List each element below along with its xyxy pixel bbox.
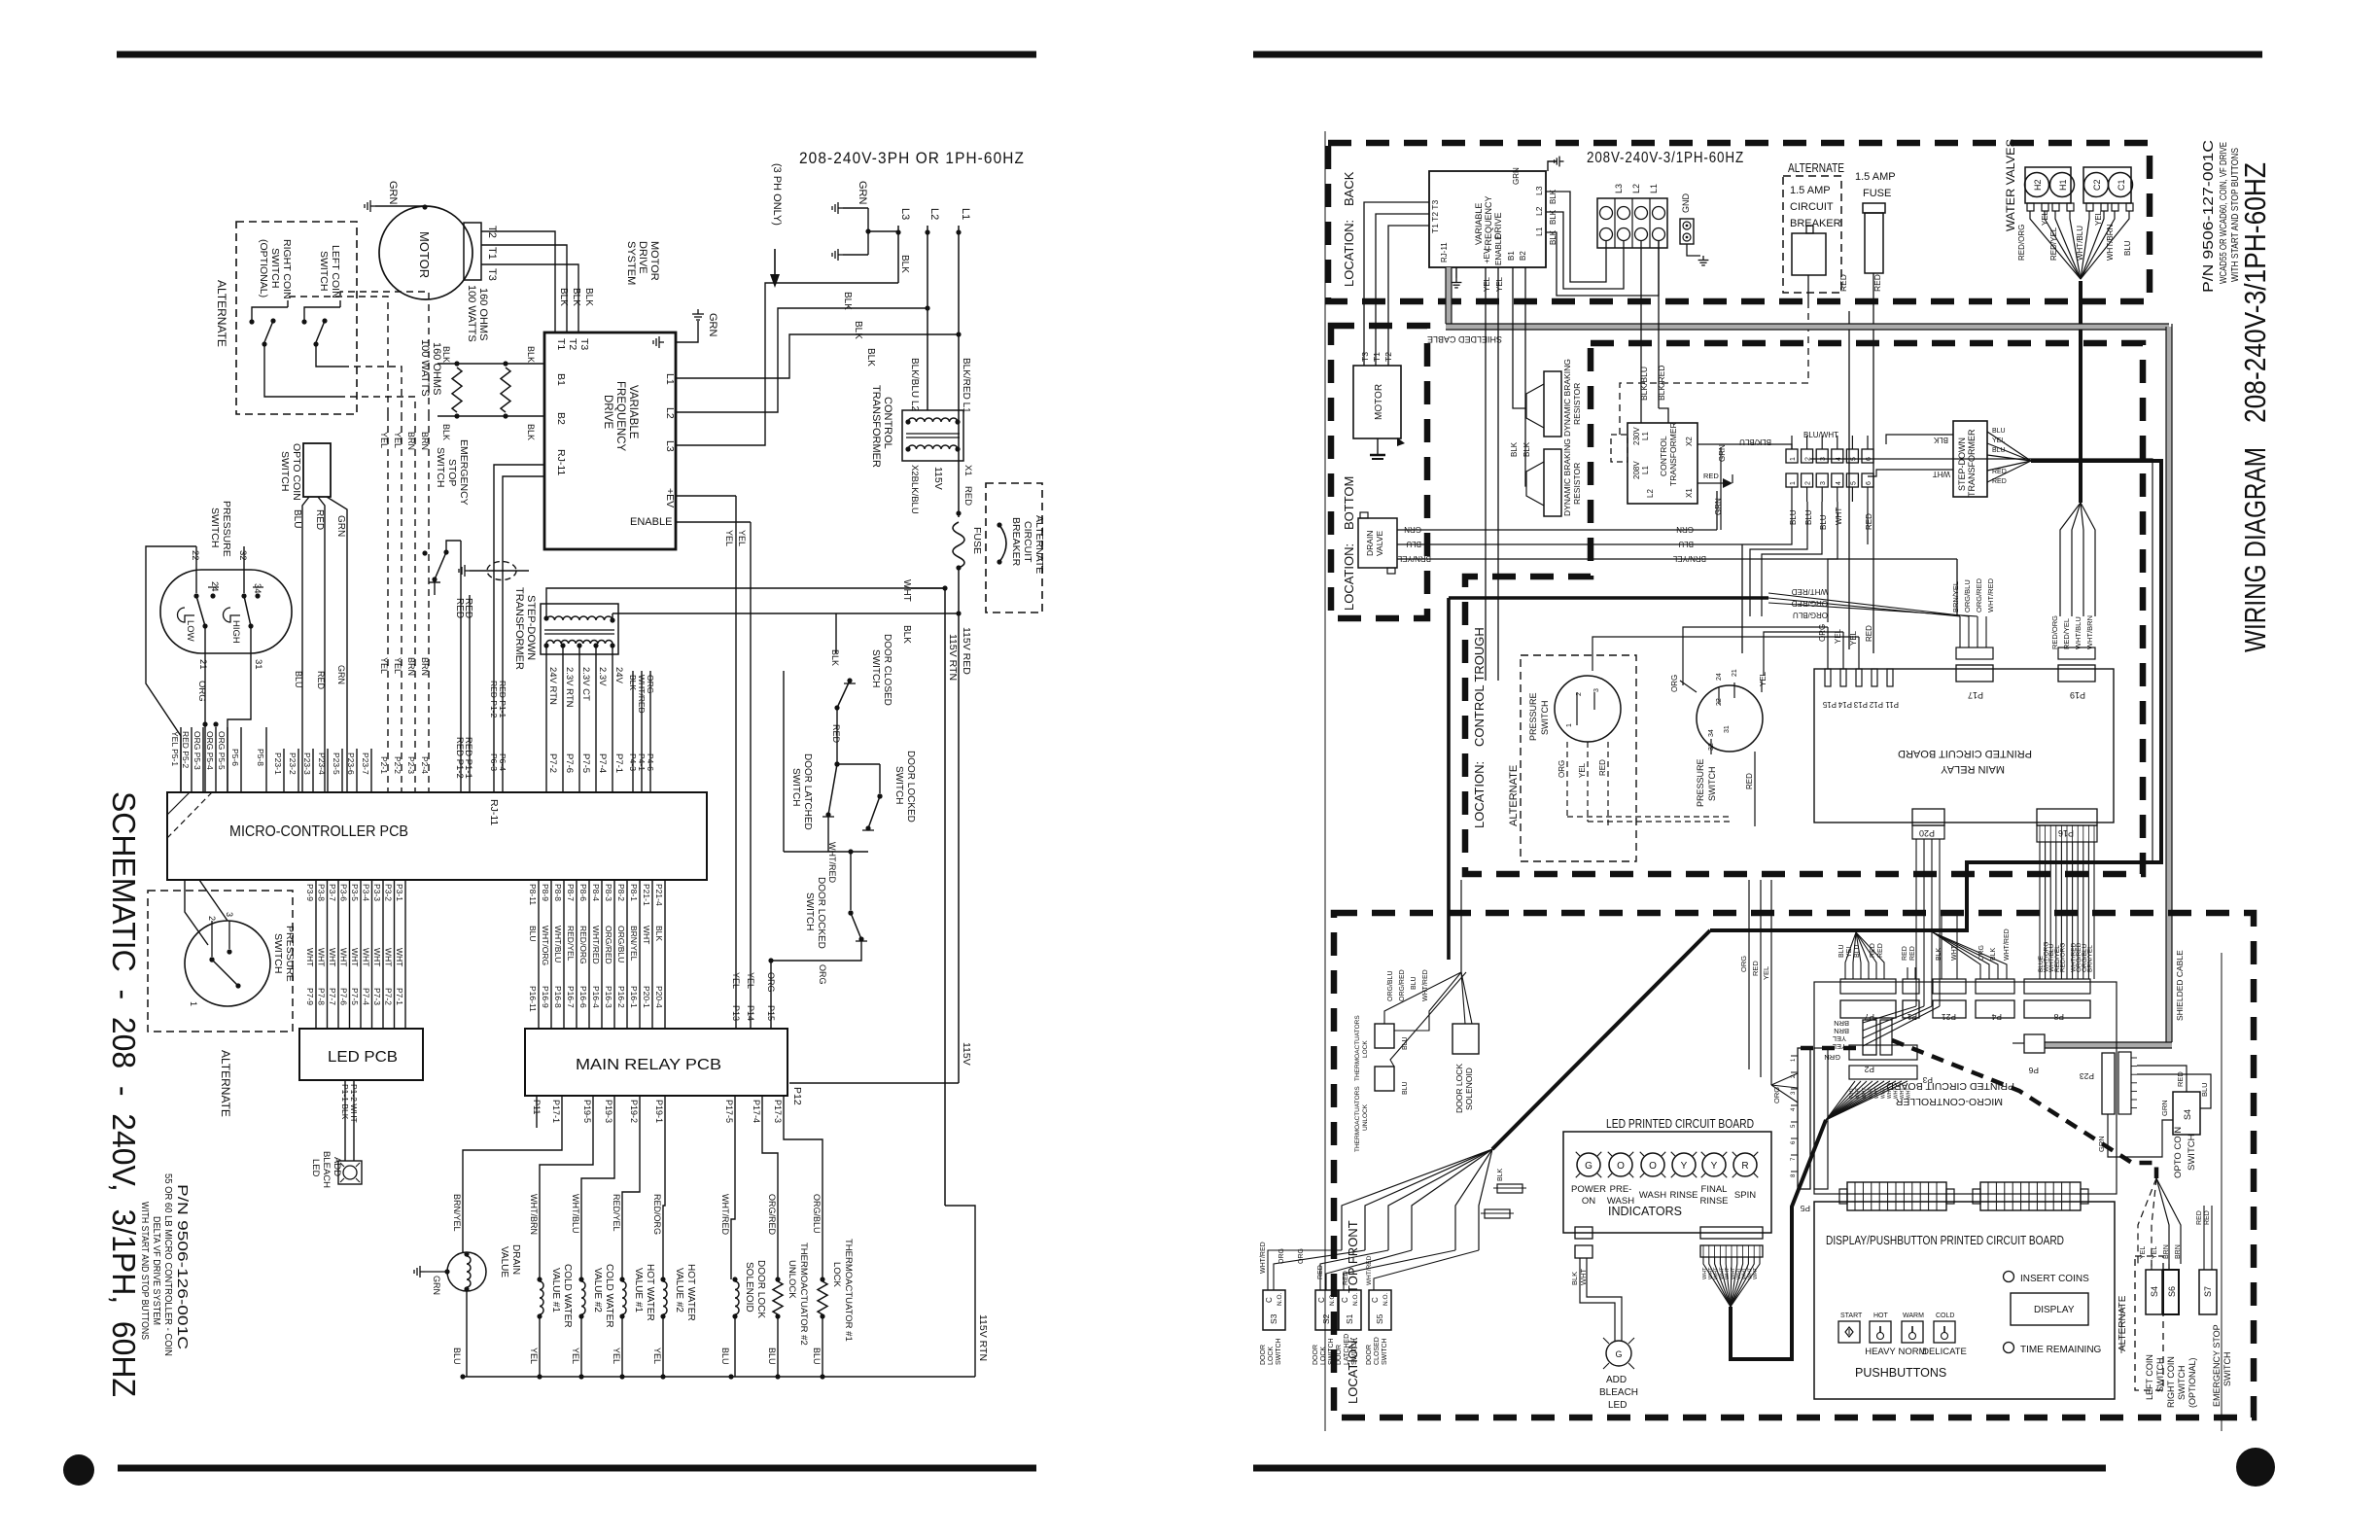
COLD button [1922, 1312, 1967, 1357]
PS4 contacts [1708, 669, 1738, 754]
svg-text:RINSE: RINSE [1699, 1196, 1728, 1207]
label ALTERNATE CIRCUIT BREAKER [1010, 515, 1045, 574]
label RED/YEL [612, 1194, 621, 1232]
svg-text:ENABLE: ENABLE [630, 516, 672, 528]
T4 labels [1632, 422, 1694, 498]
svg-text:RED: RED [1745, 773, 1754, 789]
strip wires down [1742, 502, 1868, 622]
label DISPLAY/PUSHBUTTON PRINTED CIRCUIT BOARD [1826, 1234, 2064, 1247]
svg-text:GRN: GRN [857, 181, 868, 205]
label THERMOACTUATOR #2 UNLOCK [787, 1242, 809, 1346]
svg-text:BLU: BLU [2123, 240, 2132, 256]
VFD pin label B2 [555, 412, 567, 425]
svg-text:P2-1: P2-1 [379, 756, 389, 774]
svg-text:208V: 208V [1632, 461, 1641, 479]
svg-text:P23: P23 [2080, 1071, 2094, 1081]
svg-text:P19: P19 [2070, 690, 2085, 700]
labels RED RED [454, 598, 473, 618]
svg-text:LED: LED [1608, 1400, 1627, 1411]
label OPTO COIN SWITCH [279, 443, 302, 501]
LED harness connector [1700, 1245, 1763, 1257]
VFD ground pin [653, 336, 664, 348]
svg-text:C2: C2 [2092, 179, 2102, 191]
labels BLK WHT (P21) [1936, 914, 1958, 979]
switch right coin S-R [301, 307, 340, 347]
label YEL [571, 1347, 580, 1364]
svg-text:YEL: YEL [1833, 1034, 1846, 1043]
svg-text:RED: RED [1865, 513, 1873, 530]
drain valve wires GRN BLU BRNYEL [1397, 530, 1957, 559]
svg-text:WCAD55 OR WCAD60, COIN, VF DRI: WCAD55 OR WCAD60, COIN, VF DRIVE [2219, 142, 2229, 284]
svg-text:WHT/RED: WHT/RED [1791, 587, 1828, 596]
svg-text:RED/ORG: RED/ORG [2050, 615, 2059, 649]
svg-text:P7-7: P7-7 [328, 988, 337, 1005]
svg-text:P3-1: P3-1 [395, 884, 404, 901]
svg-text:WITH START AND STOP BUTTONS: WITH START AND STOP BUTTONS [2230, 148, 2241, 282]
line L1 vertical [956, 208, 971, 461]
label STEP-DOWN TRANSFORMER [513, 587, 537, 670]
svg-text:YEL: YEL [1846, 945, 1853, 958]
svg-text:P8-1: P8-1 [629, 884, 639, 901]
BLK WHT wires to bleach LED [1570, 1258, 1622, 1342]
door locked switch S-DK1 [862, 764, 883, 831]
svg-text:P6-4: P6-4 [498, 753, 507, 771]
svg-text:P3-3: P3-3 [372, 884, 382, 901]
right page part number block [2200, 140, 2241, 293]
pressure switch PS2 circle [185, 921, 270, 1006]
indicator Y RINSE [1669, 1152, 1697, 1201]
P16 connector [2037, 809, 2097, 842]
svg-text:MOTOR: MOTOR [648, 241, 660, 281]
heavy harness fan to P3 [1826, 1081, 1907, 1120]
svg-text:P7-8: P7-8 [317, 988, 327, 1005]
label THERMOACTUATOR #1 LOCK [831, 1239, 854, 1342]
svg-text:O: O [1617, 1161, 1625, 1172]
svg-text:WHT/RED: WHT/RED [1422, 969, 1429, 1001]
svg-text:YEL: YEL [612, 1347, 621, 1364]
svg-text:P4: P4 [1991, 1012, 2002, 1022]
svg-text:P8-8: P8-8 [553, 884, 563, 901]
svg-text:2: 2 [207, 916, 217, 921]
svg-text:CIRCUIT: CIRCUIT [1022, 521, 1033, 563]
label 1.5 AMP CIRCUIT BREAKER [1790, 185, 1841, 229]
svg-text:GRN: GRN [1714, 498, 1723, 515]
motor M2 shaft [1370, 437, 1405, 459]
svg-text:P21-1: P21-1 [642, 884, 651, 906]
right page heading 208V-240V-3/1PH-60HZ [1587, 150, 1744, 166]
label PRESSURE SWITCH PS4 [1696, 758, 1717, 807]
label COLD WATER VALUE #1 [550, 1264, 573, 1328]
labels ORG BLK WHT/RED (P4) [1978, 928, 2011, 961]
svg-text:FUSE: FUSE [971, 527, 983, 554]
svg-text:C: C [1341, 1297, 1349, 1303]
indicator O PRE- [1607, 1152, 1634, 1207]
svg-text:L3: L3 [1534, 186, 1544, 195]
PS2 contacts [189, 912, 241, 1006]
svg-text:STEP-DOWN: STEP-DOWN [1957, 437, 1967, 491]
P6 connector (right) [2024, 1034, 2045, 1075]
wires P17 from fork [1768, 593, 1977, 616]
wire 115V RED feed [901, 579, 948, 602]
svg-text:SWITCH: SWITCH [2177, 1366, 2187, 1401]
svg-text:DOOR LOCKED: DOOR LOCKED [816, 877, 826, 949]
label LOCATION: BOTTOM [1342, 476, 1356, 611]
wire 115V RTN jog [945, 1206, 975, 1377]
P7 connector (right) [1840, 979, 1896, 1022]
svg-text:WHT: WHT [1907, 1088, 1912, 1099]
svg-text:P16-9: P16-9 [541, 986, 550, 1008]
P21 connector (right) [1933, 979, 1966, 1022]
svg-text:S5: S5 [1375, 1313, 1384, 1324]
svg-text:P11: P11 [532, 1100, 542, 1114]
wire BLU down [1741, 544, 1743, 653]
svg-text:ORG/BLU: ORG/BLU [1963, 579, 1972, 612]
svg-text:P14: P14 [746, 1005, 755, 1021]
water valve coil at 555 [537, 1277, 543, 1377]
svg-text:BLK: BLK [583, 288, 594, 306]
P15-P11 pins [1825, 669, 1893, 686]
svg-text:YEL: YEL [2152, 1246, 2158, 1259]
P23 connector (right) [2080, 1052, 2137, 1114]
svg-text:RED/YEL: RED/YEL [566, 926, 576, 962]
VFD U2 top ground [1548, 157, 1564, 171]
svg-text:BLK/RED L1: BLK/RED L1 [961, 358, 971, 413]
fuse F2 body [1863, 203, 1885, 273]
svg-text:P11: P11 [1885, 700, 1899, 709]
svg-text:BLK: BLK [628, 675, 638, 690]
svg-text:P19-2: P19-2 [629, 1100, 639, 1123]
svg-text:BLU: BLU [1678, 540, 1694, 548]
S7 wires [2196, 1206, 2212, 1270]
svg-text:BLU: BLU [1992, 447, 2006, 454]
svg-text:ORG/BLU: ORG/BLU [616, 926, 626, 962]
LED PCB label [328, 1049, 398, 1066]
title SCHEMATIC - 208 - 240V, 3/1PH, 60HZ (rotated) [106, 791, 142, 1397]
svg-text:24: 24 [209, 581, 220, 592]
svg-text:RED/YEL: RED/YEL [612, 1194, 621, 1232]
T4 dashed aux box [1611, 435, 1627, 462]
svg-text:DOOR: DOOR [1336, 1345, 1343, 1365]
svg-text:LOCK: LOCK [1320, 1347, 1327, 1365]
svg-text:UNLOCK: UNLOCK [787, 1260, 797, 1299]
svg-text:RINSE: RINSE [1669, 1190, 1697, 1201]
water valve harness fan [2030, 211, 2129, 279]
PS1 wires [146, 546, 251, 792]
svg-text:P16-3: P16-3 [604, 986, 613, 1008]
P19 connector [2058, 647, 2095, 700]
micro controller board outline (right) [1814, 982, 2117, 1194]
svg-text:P7-2: P7-2 [384, 988, 394, 1005]
opto coin switch S4 box [2173, 1092, 2200, 1135]
P5 fan ORG [1771, 1073, 1798, 1103]
svg-text:RED P1-1: RED P1-1 [498, 681, 507, 718]
svg-text:WHT/BLU: WHT/BLU [571, 1194, 580, 1234]
svg-text:RED: RED [831, 724, 841, 744]
P17 wires up [1960, 616, 1986, 647]
svg-text:WHT/RED: WHT/RED [637, 675, 647, 714]
label BRN/YEL [452, 1194, 462, 1232]
svg-text:SWITCH: SWITCH [870, 649, 881, 687]
svg-text:RJ-11: RJ-11 [555, 449, 567, 475]
svg-text:ORG/RED: ORG/RED [1975, 577, 1983, 612]
svg-text:WHT: WHT [901, 579, 912, 602]
svg-text:1: 1 [1566, 723, 1573, 727]
svg-text:4: 4 [1836, 481, 1842, 485]
label EMERGENCY STOP SWITCH [435, 439, 470, 506]
svg-text:DOOR CLOSED: DOOR CLOSED [882, 634, 892, 706]
wire L2 staircase to VFD [676, 308, 927, 412]
svg-text:RED/ORG: RED/ORG [652, 1194, 662, 1235]
label P19-5 [582, 1100, 592, 1123]
card edge connector 1 [1839, 1182, 1954, 1210]
wire L1 staircase to VFD [676, 334, 959, 378]
svg-text:DRAIN: DRAIN [1365, 531, 1375, 556]
svg-text:BREAKER: BREAKER [1790, 218, 1841, 229]
svg-text:L3: L3 [899, 208, 911, 220]
svg-text:230V: 230V [1632, 427, 1641, 445]
P2 connector (right) [1863, 1020, 1892, 1074]
label X1RED [962, 465, 973, 506]
svg-text:(OPTIONAL): (OPTIONAL) [258, 239, 269, 297]
svg-text:P8-3: P8-3 [604, 884, 613, 901]
svg-text:WHT: WHT [1856, 1088, 1862, 1099]
svg-text:WHT/RED: WHT/RED [2004, 928, 2011, 961]
svg-text:1: 1 [1790, 457, 1797, 461]
svg-text:GRN: GRN [387, 181, 399, 205]
ADD BLEACH LED D1 [310, 1151, 362, 1188]
svg-text:BACK: BACK [1342, 171, 1356, 206]
INSERT COINS lamp [2004, 1272, 2090, 1285]
svg-text:TRANSFORMER: TRANSFORMER [870, 385, 882, 468]
svg-text:21: 21 [197, 659, 208, 670]
svg-text:P8-7: P8-7 [566, 884, 576, 901]
labels BLK on feeders [842, 292, 876, 367]
svg-text:HIGH: HIGH [230, 620, 241, 644]
svg-text:6: 6 [1866, 481, 1872, 485]
label ALTERNATE (PS2) [219, 1050, 232, 1117]
labels P2-1..P2-4 [379, 756, 430, 774]
P7 fan to trunk [1845, 932, 1884, 979]
svg-text:YEL: YEL [379, 657, 389, 674]
wire coin sw to bus [264, 344, 342, 397]
svg-text:P8: P8 [2053, 1012, 2064, 1022]
svg-text:VALUE #2: VALUE #2 [592, 1268, 603, 1312]
svg-text:LOCK: LOCK [831, 1262, 842, 1288]
svg-text:BLU/WHT: BLU/WHT [1803, 431, 1838, 439]
svg-text:115V RTN: 115V RTN [947, 634, 959, 681]
svg-text:PRESSURE: PRESSURE [1528, 692, 1538, 741]
svg-text:SWITCH: SWITCH [318, 251, 330, 291]
svg-text:INDICATORS: INDICATORS [1608, 1205, 1682, 1218]
left page heading 208-240V-3PH OR 1PH-60HZ [799, 150, 1025, 167]
svg-text:+EV: +EV [1483, 248, 1491, 263]
svg-text:ALTERNATE: ALTERNATE [1788, 161, 1844, 175]
svg-text:RED P5-2: RED P5-2 [181, 731, 191, 769]
svg-text:GRN: GRN [1512, 167, 1521, 185]
svg-text:B2: B2 [1519, 251, 1527, 261]
label 160 OHMS 100 WATTS lower [419, 339, 442, 397]
svg-text:RED: RED [316, 671, 326, 690]
resistor rails to VFD B1 B2 [437, 364, 544, 418]
svg-text:32: 32 [237, 550, 248, 561]
svg-text:LEFT COIN: LEFT COIN [330, 245, 341, 298]
P5 connector (right) [1791, 1048, 1828, 1213]
svg-text:L2: L2 [1631, 184, 1641, 193]
svg-text:ALTERNATE: ALTERNATE [1033, 515, 1045, 574]
label ORG/BLU [812, 1194, 822, 1234]
VFD pin label ENABLE [630, 516, 672, 528]
svg-text:HEAVY: HEAVY [1865, 1347, 1896, 1357]
door lock solenoid coil [732, 1277, 739, 1377]
svg-text:115V RED: 115V RED [961, 627, 972, 675]
svg-text:RED: RED [1992, 469, 2007, 475]
labels P16-x [528, 986, 664, 1012]
PS4 wires [1670, 671, 1767, 826]
right page border line [1325, 131, 2222, 1431]
svg-text:+EV: +EV [664, 488, 676, 507]
wire P17-1 to load [463, 1096, 562, 1252]
svg-text:3: 3 [1820, 481, 1827, 485]
wire BLK return [612, 613, 959, 644]
svg-text:WHT/BLU: WHT/BLU [2074, 616, 2082, 649]
indicator R SPIN [1732, 1152, 1759, 1201]
wires P5 bundle [181, 727, 266, 792]
svg-text:RIGHT COIN: RIGHT COIN [281, 239, 293, 299]
svg-text:P7-4: P7-4 [597, 753, 608, 773]
svg-text:P7-5: P7-5 [350, 988, 360, 1005]
svg-text:DOOR LOCK: DOOR LOCK [755, 1260, 766, 1318]
svg-text:BLU: BLU [292, 509, 302, 528]
PS1 numbers [190, 550, 263, 670]
svg-text:ORG: ORG [1739, 956, 1748, 972]
title 208-240V-3/1PH-60HZ (rotated) [2238, 162, 2272, 423]
water valve bodies [2025, 167, 2131, 203]
svg-text:P19-3: P19-3 [604, 1100, 613, 1123]
step-down transformer T5 [1953, 421, 1987, 497]
svg-text:WHT: WHT [305, 948, 315, 966]
svg-text:BLU: BLU [1406, 540, 1421, 548]
svg-text:ORG: ORG [1772, 1087, 1781, 1103]
svg-text:SPIN: SPIN [1734, 1190, 1756, 1201]
svg-text:P15: P15 [1822, 700, 1837, 709]
wires P20 down [1916, 839, 1940, 1006]
svg-text:BLU: BLU [1402, 1036, 1409, 1050]
bottom 115V RTN bus [460, 1374, 975, 1379]
labels BLK x3 (VFD right) [1549, 189, 1557, 245]
svg-text:BLU: BLU [294, 671, 303, 688]
water valve coil at 682 [660, 1277, 667, 1377]
label DOOR LOCK SOLENOID [744, 1260, 766, 1318]
svg-text:3: 3 [225, 912, 234, 917]
svg-text:WHT: WHT [350, 948, 360, 966]
label ORG/RED [767, 1194, 777, 1236]
opto fan dashed [2138, 1178, 2181, 1270]
svg-text:GRN: GRN [2097, 1136, 2106, 1152]
label BLU [452, 1347, 462, 1365]
wire P17-5 to load [731, 1096, 735, 1279]
svg-text:ORG/RED: ORG/RED [767, 1194, 777, 1236]
labels GRN BLU BRN/YEL near valve [1397, 525, 1431, 563]
resistor 160 OHMS R-a [452, 361, 462, 418]
svg-text:HOT WATER: HOT WATER [685, 1264, 696, 1321]
svg-text:P3: P3 [1922, 1075, 1933, 1085]
svg-text:ORG P5-5: ORG P5-5 [217, 731, 227, 770]
svg-text:LOCATION:: LOCATION: [1342, 220, 1356, 287]
svg-text:RED/YEL: RED/YEL [2062, 618, 2071, 649]
svg-text:MOTOR: MOTOR [1374, 384, 1384, 420]
P8 connector (right) [2024, 979, 2090, 1022]
label YEL [529, 1347, 539, 1364]
svg-text:DOOR LOCK: DOOR LOCK [1454, 1064, 1464, 1113]
labels BLK at resistors [441, 346, 536, 440]
svg-text:P23-6: P23-6 [346, 752, 356, 775]
LED pcb edge connectors [1575, 1227, 1763, 1239]
svg-text:STEP-DOWN: STEP-DOWN [525, 595, 537, 660]
svg-text:RED: RED [1598, 759, 1607, 776]
svg-text:GRN: GRN [1676, 525, 1694, 534]
svg-text:100 WATTS: 100 WATTS [419, 339, 431, 397]
svg-text:WHT: WHT [642, 926, 651, 944]
wires P1-1 P1-2 to bleach LED [345, 1080, 354, 1161]
labels P15..P11 [1822, 700, 1899, 709]
svg-text:FREQUENCY: FREQUENCY [614, 381, 626, 452]
label YEL [612, 1347, 621, 1364]
svg-text:SYSTEM: SYSTEM [625, 241, 637, 285]
VFD U2 bottom ground [1452, 267, 1462, 288]
svg-text:P17-3: P17-3 [773, 1100, 783, 1123]
svg-text:208-240V-3PH OR 1PH-60HZ: 208-240V-3PH OR 1PH-60HZ [799, 150, 1025, 167]
svg-text:WHT: WHT [395, 948, 404, 966]
svg-text:BLK: BLK [654, 926, 664, 941]
svg-text:SWITCH: SWITCH [435, 447, 446, 487]
wire P19-1 to load [663, 1096, 665, 1279]
label X2BLK/BLU [909, 465, 920, 514]
labels YEL YEL BRN BRN top [379, 432, 430, 450]
svg-text:P8-2: P8-2 [616, 884, 626, 901]
fork labels WHT/RED ORG/RED ORG/BLU [1791, 587, 1828, 619]
svg-text:YEL: YEL [1849, 630, 1858, 646]
label ALTERNATE (breaker) [1788, 161, 1844, 175]
svg-text:P12: P12 [1869, 700, 1883, 709]
svg-text:P17-1: P17-1 [551, 1100, 561, 1123]
control transformer T4 box [1627, 423, 1697, 504]
labels ORG/BLU ORG/RED BLU WHT/RED (solenoid) [1387, 969, 1429, 1001]
svg-text:L1: L1 [1641, 432, 1650, 440]
svg-text:HOT WATER: HOT WATER [645, 1264, 655, 1321]
T5 left wires [1868, 435, 1953, 476]
svg-text:SWITCH: SWITCH [209, 507, 221, 547]
svg-text:COLD: COLD [1936, 1312, 1954, 1319]
label PRESSURE SWITCH (PS1) [209, 501, 232, 557]
wire VFD L1 to terminal [1546, 232, 1659, 296]
label HOT WATER VALUE #2 [674, 1264, 696, 1321]
svg-text:C: C [1317, 1297, 1326, 1303]
svg-text:WHT: WHT [1887, 1088, 1893, 1099]
svg-text:YEL: YEL [2140, 1246, 2147, 1259]
door switch S3 [1260, 1290, 1285, 1365]
svg-text:WARM: WARM [1903, 1312, 1924, 1319]
svg-text:2.3V: 2.3V [597, 667, 608, 686]
fan P20 to P2 [1863, 1006, 1940, 1046]
label LOCATION: TOP FRONT [1346, 1220, 1360, 1404]
wires ORG RED YEL to P5 [1749, 880, 1771, 1085]
T4 RED output [1697, 472, 1732, 488]
svg-text:BLK: BLK [1510, 441, 1519, 457]
labels T3 T1 T2 (motor right) [1360, 352, 1393, 362]
svg-text:115V: 115V [932, 467, 944, 490]
door switch S2 [1312, 1290, 1338, 1365]
svg-text:P3-2: P3-2 [384, 884, 394, 901]
